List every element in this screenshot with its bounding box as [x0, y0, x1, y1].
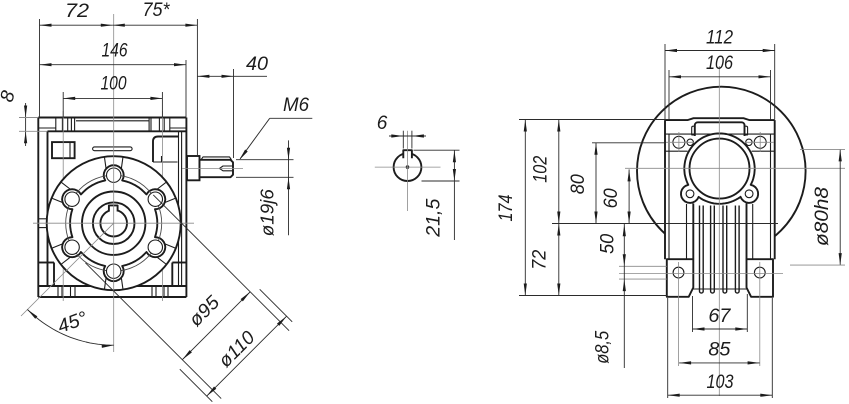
right view: flange shoulder line	[665, 133, 775, 135]
right view: input bore circle ø80h8	[690, 139, 750, 199]
right view: output axis line	[552, 223, 778, 225]
left view: oil plug boss	[52, 142, 75, 158]
svg-text:174: 174	[496, 195, 517, 222]
right view: left foot	[667, 259, 694, 297]
right view: top boss	[695, 122, 745, 136]
left view: vertical centreline	[113, 14, 115, 352]
left view: bottom strip line	[38, 285, 186, 287]
middle view: key section	[403, 150, 412, 158]
svg-text:75*: 75*	[143, 0, 171, 21]
dimension 8 extension lines	[19, 117, 38, 119]
dimension 67 extension lines	[692, 296, 694, 332]
right view: top boss left ear	[692, 126, 696, 135]
right view: body silhouette fill	[665, 120, 775, 295]
right view: right inner wall	[770, 134, 772, 259]
left view: body right inner walls	[178, 131, 180, 286]
left view: oil level slot	[93, 147, 132, 151]
dimension 75* line	[113, 24, 198, 26]
svg-text:ø19j6: ø19j6	[257, 188, 278, 236]
svg-text:21,5: 21,5	[424, 198, 445, 237]
left view: input shaft body	[200, 160, 234, 177]
right view: left inner wall	[668, 134, 670, 259]
right view: body left outer wall	[664, 120, 666, 259]
right view: left column lines	[686, 204, 688, 259]
left view: top strip left bolt lines	[55, 118, 57, 132]
right view: right foot	[747, 259, 774, 297]
left view: hollow shaft bore	[100, 210, 127, 237]
dimension 6 extension lines	[402, 131, 404, 149]
left view: shaft centre hole M6	[220, 166, 234, 171]
right view: motor flange circle	[637, 87, 806, 256]
left view: body top strip bottom line	[48, 130, 187, 132]
dimension 112 line	[665, 50, 775, 52]
left view: bottom left bolt lines	[57, 286, 59, 297]
dimension ø95 extension lines	[85, 263, 221, 399]
dimension ø110 line	[207, 316, 287, 396]
right view: top edge extension left	[519, 119, 680, 121]
dimension ø80h8 extension lines	[800, 148, 845, 150]
svg-text:72: 72	[65, 1, 89, 22]
right view: top bolt hole right	[754, 136, 766, 148]
right view: lower bolt hole left	[686, 190, 694, 198]
dimension 40 line	[197, 75, 267, 77]
left view: shaft centreline	[182, 167, 243, 169]
label M6 leader	[270, 117, 313, 119]
right view: vertical centreline	[718, 66, 720, 396]
svg-text:50: 50	[597, 233, 618, 253]
left view: lobed flange plate	[62, 165, 165, 281]
left view: top strip middle recess line	[76, 120, 149, 122]
dimension extension line right 75*	[196, 19, 198, 157]
svg-text:60: 60	[601, 188, 622, 208]
right view: top hole centrelines	[678, 132, 680, 152]
svg-text:67: 67	[708, 306, 731, 327]
svg-text:100: 100	[101, 74, 127, 95]
right view: top bolt hole left	[673, 136, 685, 148]
svg-text:146: 146	[102, 41, 128, 62]
left view: bottom right corner tab	[172, 262, 186, 264]
svg-text:72: 72	[530, 249, 551, 269]
right view: web bottom line	[693, 288, 746, 290]
svg-text:103: 103	[707, 372, 734, 393]
dimension 103 line	[668, 394, 773, 396]
dimension 67 line	[693, 328, 748, 330]
left view: oil plug chamfer line	[69, 142, 71, 158]
dimension 6 line	[389, 135, 426, 137]
svg-text:ø8,5: ø8,5	[592, 330, 613, 363]
svg-text:80: 80	[568, 174, 589, 194]
dimension ø80h8 line	[839, 149, 841, 265]
dimension ø19j6 extension lines	[236, 159, 294, 161]
dimension 8 line	[25, 103, 27, 146]
left view: bore keyway	[109, 205, 118, 211]
left view: left wall step lines	[38, 218, 47, 220]
dimension extension line left	[39, 19, 41, 118]
left view: body left outer wall	[37, 118, 39, 298]
left view: body bottom edge	[38, 296, 186, 298]
svg-text:M6: M6	[283, 95, 309, 116]
right view: top panel bottom lines	[665, 150, 688, 152]
right view: lower bolt hole right	[745, 190, 753, 198]
dimension 102 line	[558, 120, 560, 224]
left view: input boss step	[153, 161, 178, 163]
svg-text:85: 85	[708, 340, 730, 361]
dimension 80 line	[595, 143, 597, 224]
left view: bolt centrelines vertical	[62, 111, 64, 301]
left view: 45-degree centreline ray	[21, 223, 114, 316]
left view: flange bolt holes	[107, 168, 121, 182]
right view: right foot hole	[754, 267, 765, 278]
right view: pin hole right	[746, 139, 752, 145]
svg-text:102: 102	[531, 155, 552, 182]
left view: bottom left corner tab	[38, 262, 54, 264]
left view: gearbox body top edge	[38, 117, 186, 119]
right view: foot hole edge extension lines	[619, 265, 667, 267]
middle view: centre dot	[406, 166, 409, 169]
right view: raised face with lower lobes	[681, 133, 758, 203]
left view: bolt circle ø95 centreline	[66, 175, 162, 271]
right view: right column lines	[746, 204, 748, 260]
dimension 106 line	[669, 76, 771, 78]
middle view: vertical centreline	[407, 131, 409, 211]
left view: body left inner wall	[47, 131, 49, 286]
dimension 100 line	[63, 97, 162, 99]
middle view: shaft section circle	[394, 153, 422, 181]
dimension 146 line	[40, 64, 187, 66]
dimension 21,5 line	[453, 150, 455, 240]
dimension 50 and ø8,5 line	[623, 224, 625, 369]
dimension 45° arc	[27, 310, 113, 346]
left view: input boss	[153, 137, 179, 163]
right view: pin hole left	[687, 139, 693, 145]
dimension ø19j6 line	[288, 140, 290, 235]
left view: input shaft collar	[187, 156, 200, 180]
left view: top strip right bolt lines	[148, 118, 150, 132]
dimension 60 line	[628, 169, 630, 223]
right view: body right outer wall	[774, 120, 776, 259]
dimension 40 extension line	[233, 69, 235, 158]
right view: top boss right ear	[744, 126, 748, 135]
left view: housing circle ø-outer	[47, 156, 181, 290]
dimension 146 extension right	[185, 60, 187, 118]
left view: input shaft key flat	[201, 157, 232, 160]
dimension 80 extension line	[592, 142, 665, 144]
svg-text:40: 40	[246, 54, 268, 75]
right view: left foot hole	[673, 267, 684, 278]
left view: flange rib lines	[121, 158, 123, 169]
dimension 100 extension lines	[62, 92, 64, 118]
right view: body top edge with plateau	[665, 118, 775, 120]
middle view: horizontal centreline	[375, 166, 441, 168]
dimension 72 (right) line	[558, 224, 560, 296]
left view: horizontal centreline	[33, 222, 194, 224]
left view: hub outer circle	[82, 192, 145, 255]
svg-text:ø80h8: ø80h8	[812, 187, 833, 246]
dimension 85 line	[679, 362, 760, 364]
dimension 112 extension lines	[664, 44, 666, 120]
left view: hub inner circle	[93, 202, 135, 244]
left view: top strip left step line	[38, 127, 56, 129]
dimension 21,5 extension lines	[414, 149, 460, 151]
dimension 174 line	[524, 120, 526, 296]
left view: bottom right bolt lines	[151, 286, 153, 297]
dimension 106 extension lines	[668, 70, 670, 120]
svg-text:6: 6	[377, 113, 388, 134]
svg-text:106: 106	[706, 53, 733, 74]
right view: foot hole horizontal centreline	[619, 272, 783, 274]
right view: foot hole vertical centrelines	[678, 262, 680, 366]
left view: top strip right step line	[170, 127, 186, 129]
dimension 72 line	[40, 24, 113, 26]
right view: horizontal centreline	[625, 167, 845, 169]
svg-text:112: 112	[706, 28, 733, 49]
dimension ø95 line	[182, 292, 250, 360]
right view: cooling fins	[700, 206, 704, 294]
dimension ø110 extension lines	[180, 369, 213, 402]
left view: body right outer wall	[185, 118, 187, 298]
right view: bottom extension line	[519, 295, 667, 297]
dimension 103 extension lines	[667, 298, 669, 398]
